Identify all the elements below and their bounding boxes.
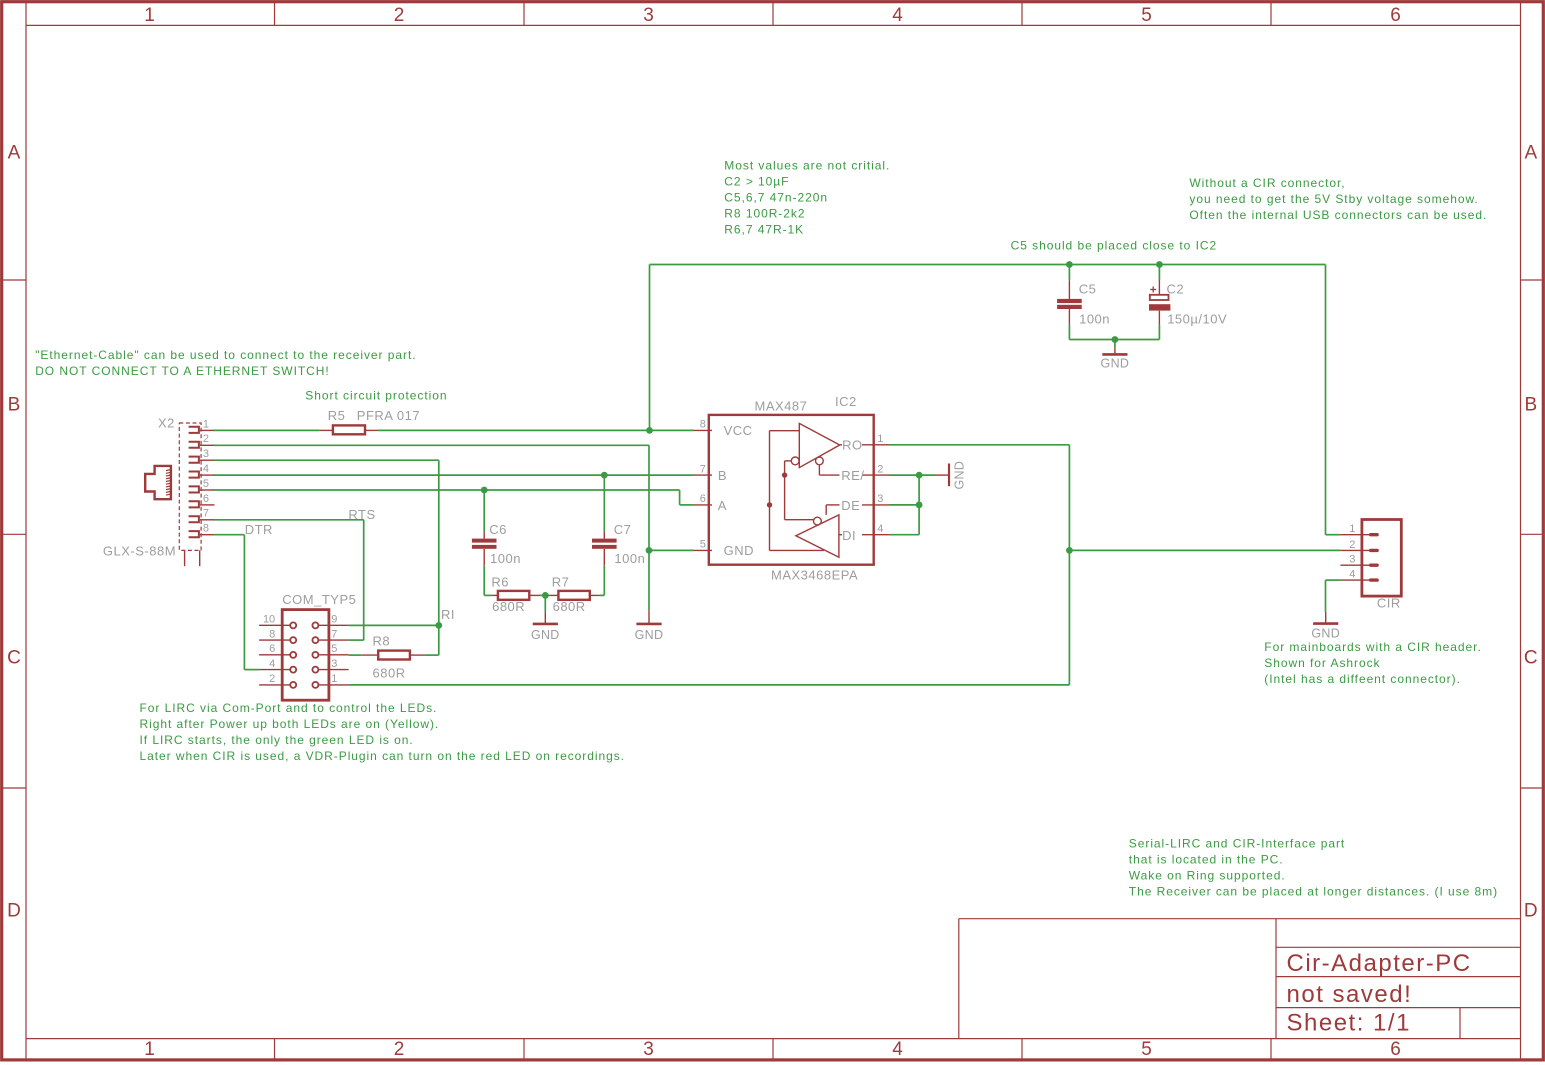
svg-text:8: 8 — [203, 523, 209, 535]
svg-text:150µ/10V: 150µ/10V — [1167, 312, 1227, 327]
svg-text:6: 6 — [700, 493, 706, 505]
svg-text:R5: R5 — [328, 408, 346, 423]
svg-text:If LIRC starts, the only the g: If LIRC starts, the only the green LED i… — [140, 733, 414, 747]
svg-text:C2: C2 — [1167, 281, 1185, 296]
svg-text:B: B — [1524, 395, 1537, 416]
svg-text:5: 5 — [700, 539, 706, 551]
svg-text:8: 8 — [269, 628, 275, 640]
svg-text:4: 4 — [877, 523, 883, 535]
svg-text:2: 2 — [1349, 539, 1355, 551]
svg-text:C5,6,7 47n-220n: C5,6,7 47n-220n — [724, 191, 828, 205]
svg-text:you need to get the 5V Stby vo: you need to get the 5V Stby voltage some… — [1189, 192, 1478, 206]
svg-text:3: 3 — [877, 493, 883, 505]
svg-text:Without a CIR connector,: Without a CIR connector, — [1189, 176, 1345, 190]
svg-text:3: 3 — [203, 448, 209, 460]
svg-text:1: 1 — [203, 418, 209, 430]
svg-text:6: 6 — [269, 643, 275, 655]
svg-text:DE: DE — [841, 498, 860, 513]
svg-text:4: 4 — [203, 463, 209, 475]
svg-text:GND: GND — [1311, 627, 1340, 641]
svg-text:C7: C7 — [614, 522, 632, 537]
svg-text:CIR: CIR — [1377, 596, 1401, 611]
svg-text:3: 3 — [643, 5, 654, 26]
svg-text:Most values are not critial.: Most values are not critial. — [724, 159, 890, 173]
svg-text:MAX487: MAX487 — [755, 399, 808, 414]
svg-text:5: 5 — [1141, 1039, 1152, 1060]
svg-text:PFRA 017: PFRA 017 — [357, 408, 420, 423]
svg-text:2: 2 — [394, 1039, 405, 1060]
svg-text:B: B — [8, 395, 21, 416]
svg-text:7: 7 — [331, 628, 337, 640]
svg-text:3: 3 — [1349, 554, 1355, 566]
svg-text:GND: GND — [953, 461, 967, 490]
svg-text:4: 4 — [269, 658, 275, 670]
svg-text:3: 3 — [331, 658, 337, 670]
svg-text:6: 6 — [1390, 5, 1401, 26]
svg-text:R6,7 47R-1K: R6,7 47R-1K — [724, 223, 804, 237]
svg-text:C: C — [7, 648, 21, 669]
svg-text:Short circuit protection: Short circuit protection — [305, 388, 447, 402]
svg-text:R6: R6 — [491, 574, 509, 589]
svg-text:8: 8 — [700, 419, 706, 431]
svg-text:DTR: DTR — [245, 522, 273, 537]
svg-text:(Intel has a diffeent connecto: (Intel has a diffeent connector). — [1264, 672, 1461, 686]
svg-text:C: C — [1524, 648, 1538, 669]
svg-text:VCC: VCC — [724, 423, 753, 438]
svg-text:B: B — [718, 468, 727, 483]
svg-text:"Ethernet-Cable" can be used t: "Ethernet-Cable" can be used to connect … — [35, 348, 416, 362]
svg-text:10: 10 — [263, 614, 275, 626]
svg-text:680R: 680R — [373, 666, 406, 681]
svg-text:not saved!: not saved! — [1287, 981, 1413, 1008]
svg-text:6: 6 — [203, 493, 209, 505]
svg-text:Cir-Adapter-PC: Cir-Adapter-PC — [1287, 950, 1472, 977]
svg-text:2: 2 — [877, 463, 883, 475]
svg-text:Right after Power up both LEDs: Right after Power up both LEDs are on (Y… — [140, 717, 440, 731]
svg-text:GLX-S-88M: GLX-S-88M — [103, 544, 176, 559]
svg-text:3: 3 — [643, 1039, 654, 1060]
svg-text:Shown for Ashrock: Shown for Ashrock — [1264, 656, 1380, 670]
svg-text:R8 100R-2k2: R8 100R-2k2 — [724, 207, 805, 221]
svg-text:D: D — [7, 901, 21, 922]
svg-text:2: 2 — [394, 5, 405, 26]
svg-text:C2 > 10µF: C2 > 10µF — [724, 175, 789, 189]
svg-text:GND: GND — [1101, 357, 1130, 371]
svg-text:C5: C5 — [1079, 281, 1097, 296]
svg-text:680R: 680R — [492, 599, 525, 614]
svg-text:A: A — [718, 498, 727, 513]
svg-text:RE/: RE/ — [841, 468, 864, 483]
svg-text:C6: C6 — [489, 522, 507, 537]
svg-text:100n: 100n — [490, 551, 521, 566]
svg-text:4: 4 — [892, 5, 903, 26]
svg-text:D: D — [1524, 901, 1538, 922]
svg-text:For LIRC via Com-Port and to c: For LIRC via Com-Port and to control the… — [140, 701, 438, 715]
svg-text:RTS: RTS — [348, 507, 375, 522]
svg-text:GND: GND — [724, 543, 754, 558]
svg-text:7: 7 — [203, 508, 209, 520]
svg-text:9: 9 — [331, 614, 337, 626]
svg-text:R7: R7 — [552, 574, 570, 589]
svg-text:1: 1 — [877, 433, 883, 445]
svg-text:100n: 100n — [614, 551, 645, 566]
svg-text:680R: 680R — [553, 599, 586, 614]
svg-text:C5 should be placed close to I: C5 should be placed close to IC2 — [1011, 238, 1218, 252]
svg-text:DO NOT CONNECT TO A ETHERNET S: DO NOT CONNECT TO A ETHERNET SWITCH! — [35, 364, 329, 378]
svg-text:Wake on Ring supported.: Wake on Ring supported. — [1129, 868, 1286, 882]
svg-text:1: 1 — [1349, 523, 1355, 535]
svg-text:A: A — [8, 143, 21, 164]
svg-text:Often the internal USB connect: Often the internal USB connectors can be… — [1189, 208, 1487, 222]
svg-text:For mainboards with a CIR head: For mainboards with a CIR header. — [1264, 640, 1481, 654]
svg-text:The Receiver can be placed at: The Receiver can be placed at longer dis… — [1129, 884, 1498, 898]
svg-text:RO: RO — [842, 438, 863, 453]
svg-text:RI: RI — [441, 607, 455, 622]
svg-text:that is located in the PC.: that is located in the PC. — [1129, 852, 1284, 866]
svg-text:1: 1 — [144, 5, 155, 26]
svg-text:A: A — [1524, 143, 1537, 164]
svg-text:GND: GND — [635, 628, 664, 642]
svg-text:IC2: IC2 — [835, 394, 857, 409]
svg-text:2: 2 — [269, 673, 275, 685]
svg-text:Serial-LIRC and CIR-Interface: Serial-LIRC and CIR-Interface part — [1129, 836, 1345, 850]
svg-text:Sheet: 1/1: Sheet: 1/1 — [1287, 1010, 1411, 1037]
svg-text:100n: 100n — [1079, 312, 1110, 327]
svg-text:Later when CIR is used, a VDR-: Later when CIR is used, a VDR-Plugin can… — [140, 749, 625, 763]
svg-text:COM_TYP5: COM_TYP5 — [282, 592, 356, 607]
svg-text:R8: R8 — [373, 633, 391, 648]
svg-text:1: 1 — [331, 673, 337, 685]
svg-text:5: 5 — [203, 478, 209, 490]
svg-text:5: 5 — [331, 643, 337, 655]
svg-text:2: 2 — [203, 433, 209, 445]
svg-text:1: 1 — [144, 1039, 155, 1060]
svg-text:DI: DI — [842, 528, 856, 543]
svg-text:GND: GND — [531, 628, 560, 642]
svg-text:X2: X2 — [158, 416, 175, 431]
svg-text:4: 4 — [892, 1039, 903, 1060]
svg-text:6: 6 — [1390, 1039, 1401, 1060]
svg-text:MAX3468EPA: MAX3468EPA — [771, 568, 858, 583]
svg-text:5: 5 — [1141, 5, 1152, 26]
svg-text:7: 7 — [700, 463, 706, 475]
svg-text:4: 4 — [1349, 569, 1355, 581]
